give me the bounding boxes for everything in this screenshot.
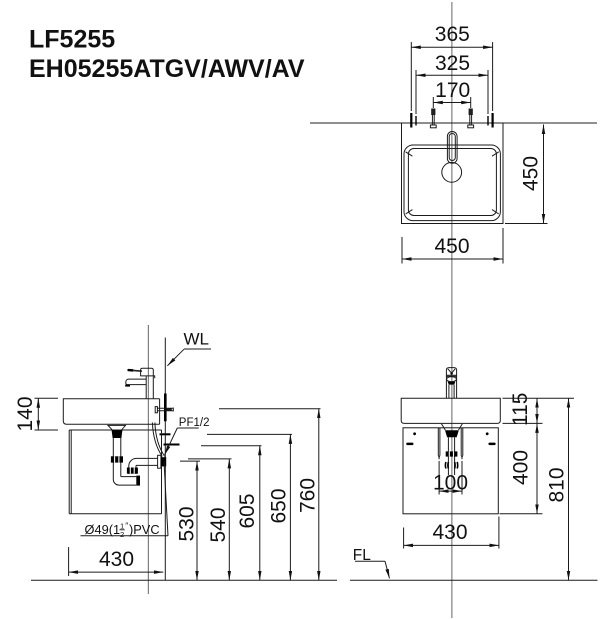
trap riser [129, 458, 158, 474]
wall outlet flange [158, 455, 161, 468]
svg-text:450: 450 [434, 235, 469, 258]
supply stub tick lower [164, 444, 180, 446]
dim 115 [536, 398, 538, 423]
WL leader [167, 349, 184, 366]
PF1/2 underline [177, 427, 198, 429]
faucet front collar lines [446, 375, 456, 376]
supply pipe right front [461, 428, 463, 459]
dim 430 side ext left [68, 547, 70, 576]
drain pipe nut front [446, 451, 458, 456]
dim 810 [568, 398, 570, 580]
dim 325 [416, 74, 488, 76]
drain funnel front [442, 424, 463, 430]
ext line 325 right [487, 70, 489, 114]
svg-text:115: 115 [509, 393, 532, 426]
dim 400 [536, 423, 538, 513]
WL underline [184, 348, 211, 350]
svg-text:2: 2 [120, 530, 124, 539]
dim 140 ext bottom [35, 429, 59, 431]
svg-text:Ø49(1: Ø49(1 [85, 522, 121, 537]
svg-text:430: 430 [432, 521, 467, 544]
dim 100 [439, 490, 462, 492]
faucet front funnel [448, 369, 455, 373]
sink front view [401, 398, 500, 423]
dim 365 [411, 46, 492, 48]
svg-text:400: 400 [509, 450, 532, 485]
supply hose curves [152, 423, 164, 457]
wall tick left outer (365) [410, 113, 412, 128]
svg-text:PF1/2: PF1/2 [179, 417, 210, 429]
faucet top view inner [449, 134, 455, 161]
svg-text:LF5255: LF5255 [29, 26, 115, 54]
drain pipe front [448, 437, 454, 475]
supply valve tip right [461, 456, 463, 459]
PF1/2 leader [165, 428, 178, 455]
cabinet side view [69, 430, 161, 514]
dim 430 front ext right [498, 517, 500, 549]
basin corner seam BL [406, 210, 413, 214]
dim 100 ext right [461, 461, 463, 495]
dim 430 front [404, 544, 499, 546]
handle dash right [488, 443, 495, 446]
svg-text:170: 170 [435, 79, 470, 102]
trap bottom elbow [113, 477, 136, 486]
svg-text:450: 450 [520, 156, 543, 191]
ext line 365 right [492, 42, 494, 111]
dim 530 ext [180, 460, 200, 462]
dim 540 [228, 459, 230, 580]
WL wall line [164, 338, 166, 581]
svg-text:100: 100 [433, 471, 468, 494]
faucet top view outer [447, 132, 457, 164]
svg-text:530: 530 [176, 506, 199, 541]
dim 605 [259, 446, 261, 581]
faucet side: column [146, 376, 153, 398]
dim 760 [318, 409, 320, 581]
basin rim outer [404, 145, 500, 221]
supply valve tip left [438, 456, 440, 459]
svg-text:365: 365 [435, 23, 470, 46]
faucet front ellipse [447, 377, 457, 382]
faucet side: spout [126, 379, 147, 385]
basin rim inner [408, 149, 496, 216]
ext line sink top right [503, 397, 575, 399]
faucet side: body head [141, 368, 155, 378]
dim 530 [196, 461, 198, 580]
supply pipe left front [438, 428, 440, 459]
cabinet front view [403, 428, 498, 514]
svg-text:605: 605 [236, 493, 259, 528]
ext line cabinet bottom right [500, 513, 543, 515]
svg-text:325: 325 [435, 52, 470, 75]
wall line (top view) [310, 122, 597, 124]
ext line 170 right [470, 97, 472, 108]
faucet side: aerator [125, 385, 130, 387]
drain nut front (black) [445, 430, 459, 437]
handle dash left [406, 443, 413, 446]
handle dot right [486, 432, 489, 435]
dim 650 ext [207, 433, 292, 435]
ext line 450 right bottom [505, 223, 548, 225]
svg-text:430: 430 [99, 548, 134, 571]
dim 650 [289, 434, 291, 580]
dim 140 [37, 398, 39, 430]
trap riser nut [127, 468, 138, 474]
slab back edge [159, 399, 161, 424]
dim 760 ext [219, 408, 321, 410]
bolt right (top view) [468, 109, 474, 128]
ext line 170 left [432, 97, 434, 108]
basin corner seam TL [406, 152, 413, 156]
sink slab side view [63, 399, 159, 424]
svg-text:)PVC: )PVC [129, 522, 160, 537]
basin corner seam BR [492, 210, 499, 214]
ext line 365 left [410, 42, 412, 111]
basin corner seam TR [492, 152, 499, 156]
svg-text:760: 760 [296, 478, 319, 513]
ext line sink bottom right [503, 422, 543, 424]
dim 100 ext left [438, 461, 440, 495]
trap cleanout cap (black) [136, 476, 140, 486]
svg-text:810: 810 [545, 467, 568, 502]
svg-text:140: 140 [14, 396, 37, 431]
handle dot left [413, 432, 416, 435]
PVC label underline [81, 535, 169, 537]
ext line 450 bottom right [502, 228, 504, 264]
wall tick right inner (325) [487, 116, 489, 126]
faucet front dot [450, 372, 452, 374]
dim 170 [433, 102, 470, 104]
drain coupling front [445, 462, 457, 469]
dim 430 side [69, 571, 164, 573]
ext line 450 bottom left [401, 237, 403, 264]
floor line right [350, 579, 598, 581]
PVC label leader slant [164, 462, 168, 536]
trap vertical pipe [113, 438, 121, 477]
mounting bolt side view [155, 407, 173, 413]
faucet side: lever arm [133, 369, 142, 372]
drain circle [442, 162, 462, 182]
svg-text:″: ″ [125, 521, 128, 531]
faucet side: lever black tip [127, 369, 133, 372]
bolt left (top view) [430, 109, 436, 128]
faucet front base (black) [448, 382, 456, 385]
FL leader [385, 561, 390, 578]
faucet front stem [449, 385, 454, 399]
wall hanger thick bar [164, 394, 167, 422]
supply stub tick upper [160, 433, 171, 435]
top view sink outer rect [402, 123, 504, 224]
svg-text:540: 540 [207, 507, 230, 542]
floor line left [31, 579, 337, 581]
faucet front outline [446, 368, 456, 399]
wall outlet nut (black) [161, 457, 166, 466]
dim 540 ext [188, 458, 232, 460]
wall tick right outer (365) [492, 113, 494, 128]
dim 140 ext top [35, 397, 59, 399]
trap upper nut (black) [112, 430, 123, 438]
centerline (vertical, through top and front views) [451, 2, 453, 618]
dim 450 right (top view) [543, 125, 545, 224]
dim 605 ext [201, 445, 262, 447]
FL underline [355, 560, 385, 562]
dim 430 front ext left [403, 528, 405, 549]
trap flange under sink [108, 425, 126, 430]
ext line 325 left [415, 70, 417, 114]
svg-text:WL: WL [184, 330, 210, 349]
dim 450 bottom (top view) [402, 258, 503, 260]
wall tick left inner (325) [415, 116, 417, 126]
trap nut on vertical pipe [111, 456, 123, 462]
svg-text:EH05255ATGV/AWV/AV: EH05255ATGV/AWV/AV [29, 55, 305, 83]
side centerline [147, 325, 149, 594]
svg-text:650: 650 [267, 488, 290, 523]
